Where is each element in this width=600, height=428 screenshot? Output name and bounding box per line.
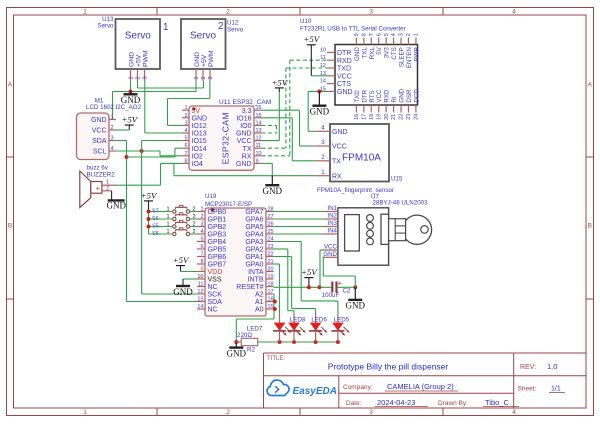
svg-text:1: 1 [128,76,134,79]
svg-text:3: 3 [208,76,214,79]
svg-text:IO16: IO16 [236,115,251,122]
wire stepper GND [323,257,355,287]
svg-text:16: 16 [256,105,262,111]
svg-text:NC: NC [208,284,218,291]
svg-text:+5V: +5V [121,114,138,124]
svg-text:INTA: INTA [248,269,264,276]
IO expander U19 MCP23017 [197,193,274,316]
svg-text:2: 2 [201,76,207,79]
svg-text:DTR: DTR [361,89,368,102]
svg-text:Servo: Servo [190,31,217,42]
svg-text:IO2: IO2 [192,153,203,160]
svg-text:5V: 5V [192,108,201,115]
junction LED5 bus [336,340,340,344]
svg-text:1: 1 [83,9,87,16]
svg-text:9: 9 [256,158,259,164]
svg-text:GND: GND [354,47,361,61]
svg-text:3: 3 [200,222,203,228]
svg-text:+5V: +5V [301,267,318,277]
svg-text:8: 8 [184,158,187,164]
svg-text:GND: GND [227,348,247,358]
svg-text:GPA7: GPA7 [245,209,263,216]
svg-text:SDA: SDA [92,138,107,145]
LED LED6 [309,316,327,342]
svg-text:2: 2 [226,9,230,16]
stepper motor shape [389,215,432,244]
svg-text:VCC: VCC [237,138,252,145]
wire GPA0 to LED7 [274,264,280,323]
svg-text:2: 2 [106,185,109,191]
svg-text:PWR: PWR [413,47,420,62]
svg-text:U10: U10 [300,18,312,25]
svg-text:GND: GND [263,186,283,196]
svg-text:5: 5 [384,33,390,36]
svg-text:12: 12 [256,136,262,142]
svg-text:GPA1: GPA1 [245,254,263,261]
svg-text:IN1: IN1 [327,205,337,212]
svg-text:7: 7 [369,33,375,36]
junction VCC drop [317,285,321,289]
ground below servo1 [121,92,141,106]
svg-text:+5V: +5V [173,255,190,265]
svg-text:16: 16 [268,297,274,303]
wire A2/A1/A0 to R2 [236,294,274,342]
svg-text:Date:: Date: [346,400,362,407]
svg-text:25: 25 [268,229,274,235]
svg-text:C2: C2 [343,288,351,295]
wire servo +5V link [138,81,204,88]
svg-text:9: 9 [200,267,203,273]
svg-text:3: 3 [111,136,114,142]
svg-text:LCD 1602 I2C_AG2: LCD 1602 I2C_AG2 [86,104,142,111]
wire ESP 3.3 to FPM VCC [262,110,316,146]
EasyEDA logo [267,380,337,397]
svg-text:GPA6: GPA6 [245,217,263,224]
svg-text:2: 2 [218,21,224,32]
svg-text:8: 8 [361,33,367,36]
svg-text:RESET#: RESET# [236,284,263,291]
svg-text:B: B [588,223,592,230]
junction SDA branch [125,155,129,159]
svg-text:9: 9 [354,33,360,36]
ground below ESP pin9 [263,176,283,196]
svg-text:12: 12 [197,289,203,295]
svg-text:10: 10 [256,151,262,157]
LED LED7 [247,323,291,342]
capacitor C2 100uF [322,278,351,299]
svg-text:LED5: LED5 [334,316,350,323]
wire GPA3 to LED5 [274,242,338,323]
svg-text:2: 2 [406,33,412,36]
svg-text:+5V: +5V [135,54,142,67]
ground below C2 [346,287,366,310]
svg-text:buzz 6v: buzz 6v [87,164,109,171]
svg-text:GND: GND [128,52,135,67]
wire IN1 [274,211,324,213]
junction rail S5 [147,225,151,229]
servo U13 [97,16,169,81]
svg-text:VCC: VCC [337,73,352,80]
svg-text:2: 2 [321,154,325,161]
svg-text:GPA5: GPA5 [245,224,263,231]
svg-text:IO4: IO4 [192,161,203,168]
svg-text:GND: GND [346,301,366,311]
svg-text:4: 4 [512,409,516,416]
svg-text:GPA2: GPA2 [245,247,263,254]
svg-text:GND: GND [194,52,201,67]
svg-text:22: 22 [399,114,405,120]
wire GPA1 to LED6 [274,257,316,323]
svg-text:CTS: CTS [337,81,351,88]
svg-text:A: A [8,82,13,89]
wire IN4 [274,233,324,235]
buzzer BUZZER2 [80,164,116,207]
svg-text:3: 3 [369,409,373,416]
svg-text:2: 2 [200,214,203,220]
wire switch S6 [149,218,198,220]
svg-text:1: 1 [184,105,187,111]
svg-text:GND: GND [310,107,330,117]
wire switch S8 [149,233,198,235]
svg-text:Prototype Billy the pill dispe: Prototype Billy the pill dispenser [328,362,449,372]
svg-text:IO14: IO14 [192,146,207,153]
svg-text:11: 11 [256,143,262,149]
svg-text:+5V: +5V [201,54,208,67]
svg-text:24: 24 [268,237,274,243]
stepper driver U7 28BYJ-48 ULN2003 [338,193,428,265]
wire servo1 PWM to IO13 [145,81,182,133]
svg-text:FT232RL USB to TTL Serial Conv: FT232RL USB to TTL Serial Converter [300,26,406,33]
title block [264,353,587,408]
svg-text:GPB0: GPB0 [208,209,227,216]
svg-text:6: 6 [184,143,187,149]
svg-text:VCC: VCC [332,144,347,151]
svg-text:2: 2 [226,409,230,416]
resistor R2 220 ohm [236,332,257,354]
svg-text:VCC: VCC [324,244,338,251]
svg-text:11: 11 [198,282,204,288]
svg-text:GPB4: GPB4 [208,239,227,246]
svg-text:24: 24 [414,114,420,120]
svg-text:GPB7: GPB7 [208,262,227,269]
junction rail S6 [147,217,151,221]
svg-text:GND: GND [323,251,337,258]
wire switch S7 [149,211,198,213]
svg-text:4: 4 [184,128,187,134]
svg-text:RX: RX [332,173,342,180]
junction A1 [273,300,277,304]
servo U12 [181,19,244,81]
junction servo GND [129,90,133,94]
svg-text:PWM: PWM [208,50,215,67]
svg-text:2024-04-23: 2024-04-23 [377,398,415,407]
wire IO4 to FPM RX [174,163,316,175]
svg-text:FPM10A_fingerprint_sensor: FPM10A_fingerprint_sensor [317,187,394,194]
svg-text:5: 5 [200,237,203,243]
svg-text:13: 13 [197,297,203,303]
junction FT232 GND [317,89,321,93]
wire IN3 [274,226,324,228]
wire switch S5 [149,226,198,228]
svg-text:1: 1 [163,22,169,33]
svg-text:17: 17 [268,289,274,295]
svg-text:1: 1 [200,207,203,213]
wire buzzer pin2 to ground [111,191,113,200]
svg-text:GND: GND [107,201,127,211]
svg-text:3.3: 3.3 [242,108,252,115]
wire GPA2 to LED8 [274,249,295,323]
svg-text:Sheet:: Sheet: [518,386,537,393]
svg-text:CAMELIA (Group 2): CAMELIA (Group 2) [387,382,454,391]
svg-text:GND: GND [399,88,406,102]
svg-text:220Ω: 220Ω [237,332,252,339]
svg-text:VSS: VSS [208,277,222,284]
svg-text:IO12: IO12 [192,123,207,130]
svg-text:Drawn By:: Drawn By: [438,400,468,407]
svg-text:RTS: RTS [369,90,376,102]
svg-text:4: 4 [321,125,325,132]
switch S7 [152,205,196,214]
svg-text:1.0: 1.0 [547,362,557,371]
wire servo2 PWM to IO12 [168,81,210,125]
svg-text:21: 21 [268,259,274,265]
svg-text:LED8: LED8 [290,316,306,323]
svg-text:13: 13 [256,128,262,134]
svg-text:RXD: RXD [337,58,352,65]
svg-text:5V: 5V [376,46,383,54]
svg-text:Servo: Servo [97,23,114,30]
svg-text:100uF: 100uF [322,292,340,299]
wire VSS to ground [183,279,197,286]
switch S6 [152,213,196,222]
svg-text:26: 26 [268,222,274,228]
+5V above FT232 [303,34,320,48]
junction LED6 bus [314,340,318,344]
junction GND node [353,285,357,289]
svg-text:GND: GND [173,287,193,297]
wire ESP IO16 to FPM TX [262,118,316,161]
svg-text:19: 19 [268,274,274,280]
svg-text:RX: RX [242,153,252,160]
wire FT232 VCC [311,48,327,76]
svg-text:SDA: SDA [208,299,223,306]
wire IO15 to SCK [142,141,197,295]
dashed jumper IO0-GND [262,125,277,133]
svg-text:GND: GND [236,131,252,138]
svg-text:23: 23 [406,114,412,120]
wire C2 to GND node [338,286,356,288]
switch S8 [152,228,196,237]
svg-text:7: 7 [184,151,187,157]
svg-text:6: 6 [200,244,203,250]
svg-text:17: 17 [361,114,367,120]
+5V rail for switches [141,190,158,211]
svg-text:GPA0: GPA0 [245,262,263,269]
junction SCL/SCK [140,149,144,153]
wire SDA net [116,141,197,302]
svg-text:GND: GND [337,89,353,96]
svg-text:14: 14 [197,304,203,310]
svg-text:IN3: IN3 [327,220,337,227]
svg-text:Servo: Servo [125,31,152,42]
svg-text:15: 15 [268,304,274,310]
junction R2 left [234,340,238,344]
svg-text:8: 8 [200,259,203,265]
dashed wire ESP TX to FT232 TXD [262,68,328,148]
svg-text:TX: TX [243,146,252,153]
svg-text:3: 3 [321,139,325,146]
svg-text:1: 1 [111,115,114,121]
fingerprint sensor U15 FPM10A [316,124,403,194]
wire IO4 to buzzer [116,163,182,185]
stepper pins [323,205,339,258]
svg-text:GPB2: GPB2 [208,224,227,231]
wire IN2 [274,218,324,220]
svg-text:CTS: CTS [391,47,398,59]
svg-text:IO15: IO15 [192,138,207,145]
ESP32-CAM U11 [182,99,271,170]
svg-text:RI: RI [391,96,398,102]
svg-text:2: 2 [135,76,141,79]
svg-text:A: A [588,82,593,89]
svg-text:14: 14 [256,120,262,126]
svg-text:SCK: SCK [208,292,223,299]
svg-text:4: 4 [391,33,397,36]
svg-text:VCC: VCC [376,89,383,103]
svg-text:14: 14 [320,79,326,85]
svg-text:DTR: DTR [337,50,351,57]
svg-text:3: 3 [142,76,148,79]
+5V at LCD VCC [121,114,138,130]
svg-text:Servo: Servo [227,26,244,33]
svg-text:12: 12 [320,63,326,69]
switch S5 [152,220,196,229]
svg-text:1/1: 1/1 [551,386,561,393]
junction +5V rail [307,285,311,289]
svg-text:27: 27 [268,214,274,220]
wire servo GND bus [113,81,197,120]
svg-text:MCP23017-E/SP: MCP23017-E/SP [205,201,252,208]
junction LED8 bus [292,340,296,344]
svg-text:3: 3 [184,120,187,126]
svg-text:10: 10 [197,274,203,280]
svg-text:ENTEN: ENTEN [406,47,413,68]
svg-text:4: 4 [512,9,516,16]
svg-text:1: 1 [194,76,200,79]
svg-text:LED6: LED6 [311,316,327,323]
ground below FT232 [310,91,330,116]
svg-text:LED7: LED7 [247,326,263,333]
svg-text:+5V: +5V [303,34,320,44]
junction A0 [273,307,277,311]
svg-text:1: 1 [321,169,325,176]
wire +5V rail [148,212,150,235]
junction rail S7 [147,210,151,214]
svg-text:19: 19 [376,114,382,120]
svg-text:TXD: TXD [354,90,361,103]
wire SCL net [116,151,182,156]
svg-text:SCL: SCL [93,148,107,155]
svg-text:FPM10A: FPM10A [342,153,381,164]
svg-text:R2: R2 [247,346,255,353]
svg-text:TITLE:: TITLE: [267,356,285,362]
svg-text:A1: A1 [255,299,264,306]
ground at R2 [227,342,247,358]
svg-text:IO0: IO0 [240,123,251,130]
svg-text:U19: U19 [205,193,217,200]
FT232RL U10 [300,18,420,120]
wire stepper VCC [320,250,324,287]
svg-text:11: 11 [320,55,326,61]
svg-text:28: 28 [268,207,274,213]
wire RESET +5V rail [274,286,332,288]
svg-text:SLEEP: SLEEP [399,47,406,67]
svg-text:IO13: IO13 [192,131,207,138]
ground at MCP VSS [173,286,193,297]
svg-text:TXL: TXL [361,47,368,59]
+5V at ESP VCC [271,77,288,92]
svg-text:RXL: RXL [369,47,376,60]
svg-text:GPA4: GPA4 [245,232,263,239]
wire FT232 GND to FPM GND [308,91,327,131]
junction LED7 bus [278,340,282,344]
svg-text:GND: GND [236,161,252,168]
+5V at reset rail [301,267,318,287]
svg-text:BUZZER2: BUZZER2 [87,172,116,179]
svg-text:Company:: Company: [343,384,373,391]
svg-text:VDD: VDD [208,269,223,276]
svg-text:+5V: +5V [141,190,158,200]
svg-text:2: 2 [111,125,114,131]
svg-text:GPB6: GPB6 [208,254,227,261]
svg-text:Tibo_C: Tibo_C [485,398,509,407]
LED LED5 [331,316,349,342]
svg-text:22: 22 [268,252,274,258]
LED LED8 [288,316,306,342]
svg-text:6: 6 [376,33,382,36]
svg-text:3: 3 [369,9,373,16]
svg-text:IN4: IN4 [327,228,337,235]
wire SDA to ESP IO14 [127,148,183,157]
ground below buzzer [107,200,127,210]
svg-text:3V3: 3V3 [384,47,391,59]
svg-text:GPA3: GPA3 [245,239,263,246]
svg-text:GND: GND [332,129,348,136]
svg-text:DCD: DCD [413,89,420,103]
wire ESP pin9 GND [262,163,273,175]
LCD module M1 [77,97,142,159]
svg-text:3: 3 [399,33,405,36]
svg-text:DSR: DSR [406,89,413,103]
svg-text:GPB5: GPB5 [208,247,227,254]
svg-text:18: 18 [369,114,375,120]
svg-text:+: + [338,278,343,287]
+5V at MCP VDD [173,255,190,272]
wire LED cathode bus [258,341,338,343]
svg-text:ESP32-CAM: ESP32-CAM [220,112,230,164]
svg-text:U11 ESP32_CAM: U11 ESP32_CAM [219,99,271,106]
svg-text:21: 21 [391,114,397,120]
svg-text:GND: GND [192,115,208,122]
svg-text:20: 20 [268,267,274,273]
svg-text:5: 5 [184,136,187,142]
wire ESP VCC [262,92,280,141]
svg-text:U15: U15 [391,176,403,183]
svg-text:IN2: IN2 [327,213,337,220]
svg-text:7: 7 [200,252,203,258]
svg-text:2: 2 [184,113,187,119]
svg-text:18: 18 [268,282,274,288]
